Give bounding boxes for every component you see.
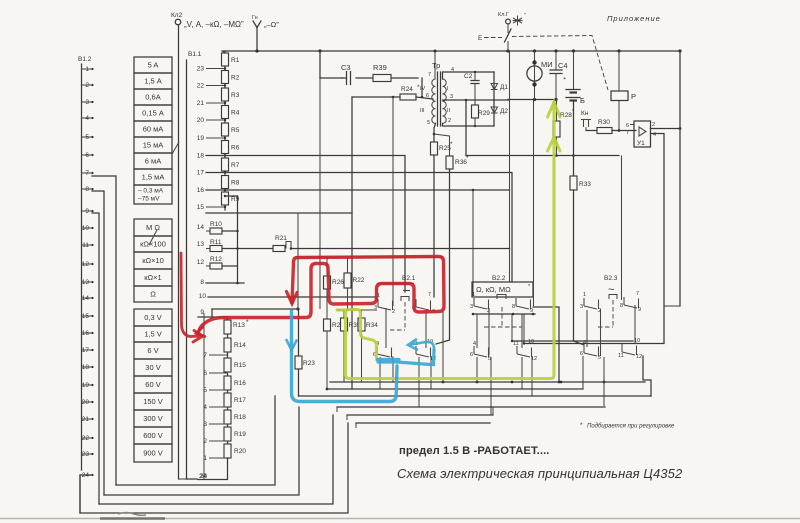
cyan arrowhead on vertical xyxy=(287,340,297,350)
cyan trace from node A down and right xyxy=(292,311,398,402)
wire R26 to R27 xyxy=(326,289,328,319)
diode D1 xyxy=(491,84,498,90)
wire R36 top jog xyxy=(433,133,436,136)
wafer B2.2 rotor axis xyxy=(501,307,503,327)
wire R24 right to transformer xyxy=(416,97,433,99)
svg-text:С4: С4 xyxy=(558,61,568,70)
wafer B2.3 rotor mark xyxy=(609,295,617,300)
svg-text:R7: R7 xyxy=(231,162,240,169)
cyan thick bar xyxy=(377,350,434,365)
range box кΩ×100 xyxy=(134,236,172,252)
wire B2.2 lower right drop2 xyxy=(531,357,533,396)
svg-text:R39: R39 xyxy=(373,63,387,72)
wire B2.2 pin9 right xyxy=(533,307,559,382)
svg-text:15: 15 xyxy=(197,204,205,211)
svg-text:R22: R22 xyxy=(353,277,365,284)
wire B2.3 pin5 drop xyxy=(603,357,605,406)
scan pen slash xyxy=(149,230,157,245)
resistor R20 xyxy=(224,444,231,458)
svg-text:+: + xyxy=(563,76,566,82)
contact B2.1 lower left xyxy=(377,346,392,357)
range box 1,5 V xyxy=(134,326,172,342)
svg-text:2: 2 xyxy=(203,438,207,445)
wire pin 9 jog xyxy=(198,309,212,317)
resistor R14 xyxy=(224,338,231,352)
wire secondary mid tap xyxy=(443,99,495,101)
wire pin 8 stub xyxy=(206,282,244,284)
wire R34 bottom xyxy=(361,331,363,382)
range box -0,3 mA / -75 mV xyxy=(134,185,172,204)
wire U1 pin4 right xyxy=(651,134,665,344)
svg-text:1,5 мА: 1,5 мА xyxy=(142,173,165,182)
svg-text:Подбирается при регулировке: Подбирается при регулировке xyxy=(587,424,675,430)
range box 0,6А xyxy=(134,89,172,105)
range box 60 мА xyxy=(134,121,172,137)
resistor R33 xyxy=(570,176,577,190)
wire B2.2 mid drops xyxy=(511,314,513,341)
contact B2.3 lower right xyxy=(622,344,637,355)
svg-text:7: 7 xyxy=(428,292,431,298)
svg-text:R8: R8 xyxy=(231,180,240,187)
svg-text:13: 13 xyxy=(197,241,205,248)
contact B2.3 lower left xyxy=(584,345,599,356)
svg-text:R17: R17 xyxy=(234,397,246,404)
svg-text:60 мА: 60 мА xyxy=(143,125,164,134)
svg-text:8: 8 xyxy=(512,304,515,310)
svg-text:6: 6 xyxy=(203,370,207,377)
svg-text:Д2: Д2 xyxy=(500,108,508,115)
resistor R11 xyxy=(210,246,222,252)
svg-text:С3: С3 xyxy=(341,63,351,72)
wire B1.1 pin 18 to B2.1 rotor xyxy=(206,156,405,293)
range box 0,3 V xyxy=(134,309,172,326)
svg-text:R6: R6 xyxy=(231,145,240,152)
svg-text:R24: R24 xyxy=(401,86,413,93)
svg-text:12: 12 xyxy=(197,259,205,266)
wire R1-R9 chain xyxy=(224,51,226,210)
svg-text:7: 7 xyxy=(626,130,629,136)
svg-text:1: 1 xyxy=(583,292,586,298)
svg-text:4: 4 xyxy=(583,340,586,346)
range box 900 V xyxy=(134,444,172,462)
node B1.1 pin 24 xyxy=(187,478,198,480)
svg-text:20: 20 xyxy=(197,117,205,124)
wire bus y415 xyxy=(347,414,493,416)
wire B2.3 moving link xyxy=(634,305,636,344)
wire rectifier right vertical xyxy=(493,72,495,126)
svg-text:5 A: 5 A xyxy=(148,61,159,70)
svg-text:R5: R5 xyxy=(231,127,240,134)
wire B2.2 left link xyxy=(476,314,478,348)
red arrowhead down xyxy=(287,292,298,304)
wire B2.3 pin6 link xyxy=(582,382,584,389)
contact B2.3 upper left xyxy=(584,298,599,309)
wire bus jog xyxy=(492,407,494,415)
wire from B1.2 pin 24 down left side xyxy=(80,475,92,513)
svg-text:17: 17 xyxy=(197,170,205,177)
svg-text:R13: R13 xyxy=(233,322,245,329)
wire B1.2 shaft xyxy=(81,64,83,470)
svg-text:150 V: 150 V xyxy=(143,397,163,406)
red trace big loop xyxy=(199,257,444,332)
svg-text:5: 5 xyxy=(427,120,430,126)
wire highlighted top loop xyxy=(294,256,443,258)
wire R27 bottom to bus xyxy=(326,331,328,389)
wire long y341 xyxy=(512,340,633,342)
range box Ω xyxy=(134,286,172,302)
svg-text:18: 18 xyxy=(197,153,205,160)
wire B2.3 left link xyxy=(586,310,588,347)
range box кΩ×10 xyxy=(134,252,172,269)
svg-text:11: 11 xyxy=(618,353,624,359)
wire B2.2 lower right drop xyxy=(521,357,523,389)
svg-text:24: 24 xyxy=(200,473,208,480)
svg-text:„–Ω”: „–Ω” xyxy=(264,20,279,29)
svg-text:4: 4 xyxy=(473,341,476,347)
resistor R15 xyxy=(224,358,231,372)
svg-text:Р: Р xyxy=(631,92,636,101)
wire R35 bottom xyxy=(343,331,345,382)
svg-text:15 мА: 15 мА xyxy=(143,141,164,150)
svg-text:Схема электрическая принципи: Схема электрическая принципиальная Ц4352 xyxy=(397,466,683,481)
svg-text:22: 22 xyxy=(197,83,205,90)
svg-text:R12: R12 xyxy=(210,256,222,263)
svg-text:Гн: Гн xyxy=(252,15,258,21)
transformer secondary winding xyxy=(443,79,447,123)
scan smudge xyxy=(118,513,146,516)
wire R33 down to B2.3 xyxy=(574,190,585,345)
svg-text:М Ω: М Ω xyxy=(146,223,160,232)
range box 1,5 А xyxy=(134,73,172,89)
svg-text:Ω, кΩ, МΩ: Ω, кΩ, МΩ xyxy=(476,285,511,294)
wire mid bus y155 xyxy=(466,155,619,157)
wire right vertical from top bus xyxy=(679,51,681,306)
svg-text:21: 21 xyxy=(197,100,205,107)
meter MI xyxy=(534,51,536,100)
wire B2.3 upper feed xyxy=(621,156,623,301)
range box 15 мА xyxy=(134,137,172,153)
wire R22 top stub xyxy=(347,257,349,273)
red arrowhead left squiggle xyxy=(196,327,205,337)
wire rotor shaft line xyxy=(203,313,205,479)
lime arrowhead 1 xyxy=(548,102,561,117)
wire B2.1 right link xyxy=(425,310,427,348)
wire nest third xyxy=(104,407,299,495)
svg-text:3: 3 xyxy=(203,421,207,428)
wire mid vertical x320 xyxy=(319,78,321,309)
resistor R3 xyxy=(222,88,229,101)
switch E lever xyxy=(507,24,509,33)
wire relay P vertical xyxy=(618,51,620,91)
svg-text:23: 23 xyxy=(197,66,205,73)
svg-text:R9: R9 xyxy=(231,196,240,203)
svg-text:3: 3 xyxy=(374,305,377,311)
resistor R19 xyxy=(224,427,231,441)
wire Kl.G branch down to B2.2 xyxy=(509,51,511,282)
svg-text:12: 12 xyxy=(636,354,642,360)
wire transformer pin5 down xyxy=(434,123,436,142)
resistor R35 xyxy=(341,318,348,331)
svg-text:кΩ×100: кΩ×100 xyxy=(140,240,166,249)
wire R25 down to B2.1 xyxy=(433,155,435,297)
svg-text:8: 8 xyxy=(620,303,623,309)
svg-text:*: * xyxy=(246,319,249,326)
node A junction xyxy=(296,307,299,310)
svg-text:R30: R30 xyxy=(598,119,610,126)
wire R23 bottom to bus xyxy=(298,369,300,396)
svg-text:R18: R18 xyxy=(234,414,246,421)
svg-text:*: * xyxy=(580,422,583,429)
resistor R16 xyxy=(224,376,231,390)
resistor R8 xyxy=(222,176,229,189)
resistor R28 xyxy=(556,100,558,122)
svg-text:R26: R26 xyxy=(332,279,344,286)
wire B1.1 pin 15 long xyxy=(206,212,352,214)
wire under red loop xyxy=(377,283,414,285)
svg-text:R33: R33 xyxy=(579,181,591,188)
resistor R9 xyxy=(222,192,229,205)
svg-text:R4: R4 xyxy=(231,110,240,117)
wire bus y389 xyxy=(327,388,583,390)
svg-text:30 V: 30 V xyxy=(145,363,160,372)
wire B2.3 lower right staircase xyxy=(643,356,651,396)
relay P xyxy=(611,91,628,101)
svg-text:R29: R29 xyxy=(478,110,490,117)
svg-text:В1.1: В1.1 xyxy=(188,51,202,58)
resistor R29 xyxy=(472,105,479,118)
wire C3 branch vertical xyxy=(319,51,321,78)
resistor R5 xyxy=(222,123,229,136)
wafer B2.2 rotor mark xyxy=(497,295,506,300)
wire long y343 xyxy=(524,343,664,345)
svg-text:I: I xyxy=(447,86,449,92)
resistor R6 xyxy=(222,141,229,154)
wire from B1.2 pin 8 down left side xyxy=(92,191,104,495)
contact B2.2 upper left xyxy=(474,298,489,309)
red trace left vertical xyxy=(181,253,203,342)
svg-text:МИ: МИ xyxy=(541,60,553,69)
svg-text:В2.2: В2.2 xyxy=(492,275,506,282)
svg-text:4: 4 xyxy=(203,404,207,411)
dashed link E xyxy=(484,37,502,39)
svg-text:R14: R14 xyxy=(234,342,246,349)
transformer primary winding xyxy=(432,79,436,123)
svg-text:*: * xyxy=(572,109,575,115)
svg-text:7: 7 xyxy=(203,352,207,359)
wire bus stubs left xyxy=(336,407,338,412)
contact B2.1 upper right xyxy=(416,299,431,310)
wire B1.1 pin 17 to B2.2 rotor xyxy=(206,173,512,283)
scan pen slash 2 xyxy=(172,142,179,154)
svg-text:6: 6 xyxy=(426,93,429,99)
svg-text:2: 2 xyxy=(448,118,451,124)
resistor R12 xyxy=(210,263,222,269)
wire R39 to R24 corner xyxy=(421,78,423,97)
svg-text:предел 1.5 В -РАБОТАЕТ....: предел 1.5 В -РАБОТАЕТ.... xyxy=(399,445,550,457)
range box кΩ×1 xyxy=(134,269,172,286)
svg-text:R10: R10 xyxy=(210,221,222,228)
svg-text:6: 6 xyxy=(626,123,629,129)
resistor R34 xyxy=(358,318,365,331)
transformer core xyxy=(437,72,439,126)
lime arrowhead 2 xyxy=(548,137,561,151)
lime stub left xyxy=(337,309,346,312)
wire B2.1 lower right drop xyxy=(418,357,420,407)
wire pin 9 to node A xyxy=(212,308,298,310)
wire B2.1 lower right drop 2 xyxy=(430,357,432,389)
scanner edge line xyxy=(0,518,800,520)
wire nest inner xyxy=(116,396,275,485)
svg-text:Кн: Кн xyxy=(581,110,589,117)
svg-text:2: 2 xyxy=(652,122,655,128)
range box 5 A xyxy=(134,57,172,73)
wire right side horizontal xyxy=(664,305,680,307)
wire bus y407 xyxy=(337,406,605,408)
svg-text:В2.1: В2.1 xyxy=(402,275,416,282)
wafer B2.1 rotor mark xyxy=(403,290,410,292)
wire U1 pin2 right xyxy=(651,128,681,130)
wire drop to node A xyxy=(297,213,299,309)
wire R10-R12 collector vertical xyxy=(237,196,239,283)
wire left vertical pair bottom xyxy=(179,478,187,480)
range box 30 V xyxy=(134,359,172,376)
wire B2.1 pin6 highlighted drop xyxy=(442,311,444,382)
wire from Kl2 down left column xyxy=(178,25,180,479)
wire bus y396 xyxy=(299,395,652,397)
wire B2.3 mid link xyxy=(600,309,602,356)
wire chain bottom 24 xyxy=(198,458,228,480)
resistor R27 xyxy=(324,319,331,331)
svg-text:„V, А, –кΩ, –МΩ”: „V, А, –кΩ, –МΩ” xyxy=(184,20,244,29)
svg-text:0,6А: 0,6А xyxy=(145,93,160,102)
resistor R18 xyxy=(224,410,231,424)
wire R9 top to collector xyxy=(225,195,238,197)
svg-text:”: ” xyxy=(524,13,526,19)
resistor R25 xyxy=(431,142,438,155)
range box 1,5 мА xyxy=(134,169,172,185)
svg-text:В1.2: В1.2 xyxy=(78,56,92,63)
wire node A down through R23 xyxy=(298,309,300,356)
svg-text:1: 1 xyxy=(472,292,475,298)
svg-text:6 мА: 6 мА xyxy=(145,157,161,166)
svg-text:У1: У1 xyxy=(637,140,645,147)
wire MI down to B2.2 pin9 xyxy=(533,100,535,306)
svg-text:II: II xyxy=(447,108,451,114)
wire U1 pin6 stub xyxy=(630,124,634,126)
svg-text:8: 8 xyxy=(200,279,204,286)
lime trace from R28 down and around xyxy=(346,102,555,379)
wire R26 top stub xyxy=(326,257,328,276)
wire from B1.2 pin 7 down left side xyxy=(92,176,116,485)
resistor R4 xyxy=(222,106,229,119)
wire B2.2 right link xyxy=(521,314,523,348)
wire mid tap down xyxy=(465,100,467,156)
svg-text:Е: Е xyxy=(478,35,483,42)
wire B1.1 shaft xyxy=(186,60,188,479)
wire R21 long right xyxy=(291,248,510,250)
svg-text:Б: Б xyxy=(580,96,585,105)
svg-text:IV: IV xyxy=(420,86,426,92)
svg-text:–75 мV: –75 мV xyxy=(138,196,160,203)
svg-text:600 V: 600 V xyxy=(143,431,163,440)
svg-text:1: 1 xyxy=(203,455,207,462)
wire lime-followed node row xyxy=(337,309,377,311)
svg-text:Д1: Д1 xyxy=(500,84,508,91)
resistor R26 xyxy=(324,276,331,289)
wire top bus xyxy=(222,50,680,52)
battery B xyxy=(573,51,575,89)
svg-text:60 V: 60 V xyxy=(145,380,160,389)
svg-text:6 V: 6 V xyxy=(147,346,158,355)
range box 0,15 А xyxy=(134,105,172,121)
svg-text:10: 10 xyxy=(634,338,640,344)
wire R30 to U1 xyxy=(612,130,636,132)
contact B2.2 lower right xyxy=(517,346,532,357)
wire R24 left tap xyxy=(352,96,400,98)
svg-text:5: 5 xyxy=(598,355,601,361)
wire Kn to R30 xyxy=(586,130,597,132)
svg-text:кΩ×1: кΩ×1 xyxy=(144,273,161,282)
dashed link to relay xyxy=(512,36,608,91)
resistor R30 xyxy=(597,128,612,134)
wire secondary top xyxy=(443,72,495,79)
range box 300 V xyxy=(134,410,172,427)
svg-text:14: 14 xyxy=(197,224,205,231)
svg-text:0,15 А: 0,15 А xyxy=(142,109,164,118)
range box 600 V xyxy=(134,427,172,444)
wire R13-R20 chain xyxy=(227,320,229,458)
wire rectifier output xyxy=(494,99,508,101)
range box 60 V xyxy=(134,376,172,393)
svg-text:9: 9 xyxy=(638,307,641,313)
svg-text:7: 7 xyxy=(428,72,431,78)
svg-text:В2.3: В2.3 xyxy=(604,275,618,282)
svg-text:Кл.Г: Кл.Г xyxy=(498,12,509,18)
svg-text:Тр: Тр xyxy=(432,61,440,70)
svg-text:6: 6 xyxy=(470,352,473,358)
resistor R36 xyxy=(446,156,453,169)
wire nest second xyxy=(99,415,333,504)
resistor R24 xyxy=(400,94,416,100)
contact B2.1 lower right xyxy=(416,346,431,357)
wafer B2.1 rotor axis xyxy=(404,302,406,330)
wafer B2.3 rotor axis xyxy=(612,300,614,327)
wire B2.3 pin6 drop xyxy=(582,356,584,389)
wire R35 top stub xyxy=(343,310,345,318)
svg-text:R23: R23 xyxy=(303,360,315,367)
contact B2.3 upper right xyxy=(624,297,639,308)
svg-text:16: 16 xyxy=(197,187,205,194)
resistor R39 xyxy=(373,75,391,82)
range box 6 V xyxy=(134,342,172,359)
resistor R2 xyxy=(222,71,229,84)
svg-text:– 0,3 мА: – 0,3 мА xyxy=(138,188,164,195)
svg-text:3: 3 xyxy=(450,94,453,100)
svg-text:Ω: Ω xyxy=(150,290,156,299)
wire battery down xyxy=(573,101,575,176)
wire B2.1 lower left drop 2 xyxy=(392,357,394,382)
wire R24 drop to B2.1 pin2 xyxy=(392,97,394,306)
wire secondary bottom xyxy=(443,123,495,126)
svg-text:R2: R2 xyxy=(231,75,240,82)
svg-text:*: * xyxy=(450,141,453,148)
op-amp U1 xyxy=(634,121,651,147)
range box 150 V xyxy=(134,393,172,410)
svg-text:7: 7 xyxy=(636,291,639,297)
svg-text:R3: R3 xyxy=(231,92,240,99)
svg-text:5: 5 xyxy=(203,387,207,394)
svg-text:*: * xyxy=(528,284,531,290)
